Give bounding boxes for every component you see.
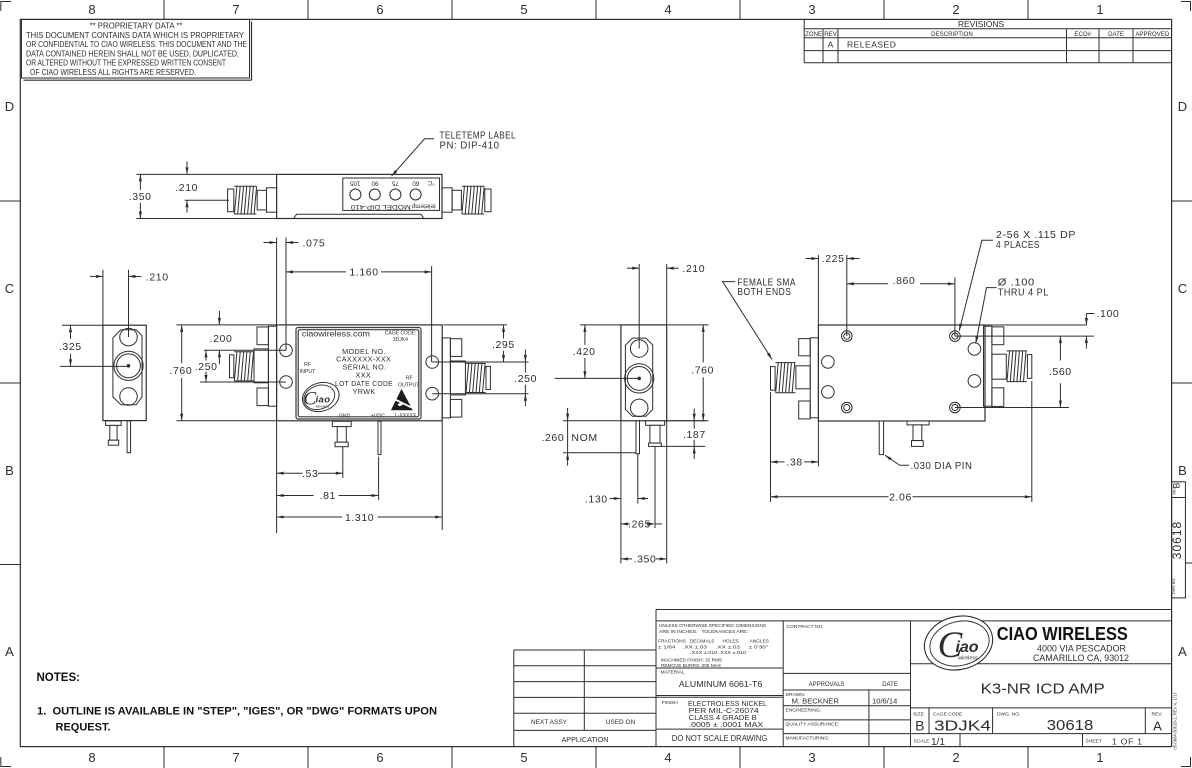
- dimension .350 (top view height): [129, 174, 277, 218]
- svg-text:1. OUTLINE IS AVAILABLE IN "S: 1. OUTLINE IS AVAILABLE IN "STEP", "IGES…: [37, 706, 437, 718]
- bottom recess groove of top view body: [294, 214, 424, 218]
- zone tick marks right edge: [1172, 201, 1192, 563]
- label ciao logo (small): [299, 378, 343, 416]
- svg-text:NEXT ASSY: NEXT ASSY: [531, 719, 568, 726]
- MIDDLE END VIEW: chamfered connector boss outline: [625, 338, 652, 416]
- dimension 2.06 (overall length): [771, 381, 1032, 504]
- BOTTOM VIEW: right SMA connector: [984, 326, 1032, 406]
- svg-text:YRWK: YRWK: [353, 387, 376, 396]
- MIDDLE END VIEW: +VDC wire lead: [636, 421, 640, 454]
- svg-text:OUTPUT: OUTPUT: [398, 383, 420, 389]
- svg-text:DATA CONTAINED HEREIN SHALL NO: DATA CONTAINED HEREIN SHALL NOT BE USED,…: [26, 49, 239, 58]
- svg-text:ALUMINUM 6061-T6: ALUMINUM 6061-T6: [679, 680, 763, 689]
- svg-text:7: 7: [232, 750, 239, 765]
- svg-text:DWG. NO.: DWG. NO.: [997, 711, 1020, 717]
- svg-text:UNLESS OTHERWISE SPECIFIED: DI: UNLESS OTHERWISE SPECIFIED: DIMENSIONS: [659, 623, 767, 629]
- svg-text:B: B: [1178, 463, 1187, 478]
- svg-text:A: A: [1153, 719, 1162, 734]
- svg-text:OR CONFIDENTIAL TO CIAO WIRELE: OR CONFIDENTIAL TO CIAO WIRELESS. THIS D…: [26, 40, 247, 49]
- svg-text:CIAO WIRELESS: CIAO WIRELESS: [997, 623, 1128, 644]
- FRONT VIEW: right SMA connector (RF output): [442, 338, 490, 418]
- svg-text:FINISH: FINISH: [662, 700, 678, 706]
- svg-text:RF: RF: [406, 375, 413, 381]
- MIDDLE END VIEW: lower flange hole: [630, 399, 648, 417]
- svg-text:.XXX ±.010 .XXX ±.010: .XXX ±.010 .XXX ±.010: [690, 650, 746, 656]
- svg-text:75: 75: [392, 180, 399, 187]
- tolerance box: [656, 621, 783, 747]
- svg-text:3DJK4: 3DJK4: [934, 719, 991, 735]
- svg-text:.200: .200: [210, 333, 233, 345]
- svg-text:.860: .860: [893, 275, 916, 287]
- FEMALE SMA BOTH ENDS callout: [723, 276, 796, 359]
- svg-text:CAGE CODE: CAGE CODE: [933, 711, 963, 717]
- TOP VIEW: amplifier housing body (top): [277, 174, 442, 218]
- BOTTOM VIEW: left SMA connector: [771, 338, 819, 419]
- svg-text:1.160: 1.160: [349, 267, 378, 279]
- FRONT VIEW: left SMA connector (RF input): [230, 326, 277, 406]
- svg-text:SHEET: SHEET: [1086, 739, 1102, 745]
- svg-text:4: 4: [664, 750, 671, 765]
- dimension .265 (GND pin offset): [621, 446, 662, 530]
- svg-text:BOTH ENDS: BOTH ENDS: [737, 286, 791, 298]
- svg-text:REV: REV: [824, 31, 837, 38]
- label ESD warning triangle: [391, 389, 414, 410]
- svg-text:6: 6: [376, 750, 383, 765]
- MIDDLE END VIEW: GND feedthrough pin: [646, 421, 665, 447]
- MIDDLE END VIEW: housing body (output end): [621, 325, 667, 421]
- svg-text:MATERIAL: MATERIAL: [661, 670, 685, 676]
- zone tick marks bottom edge: [164, 747, 1028, 768]
- TOP VIEW: right SMA connector: [442, 186, 491, 214]
- svg-text:2: 2: [952, 2, 959, 17]
- callout 2-56 X .115 DP 4 PLACES: [959, 229, 1076, 331]
- dimension .860 (tapped hole spacing): [847, 275, 955, 336]
- svg-text:.250: .250: [195, 361, 218, 373]
- svg-text:QUALITY ASSURANCE:: QUALITY ASSURANCE:: [786, 722, 840, 728]
- zone numbers bottom: [88, 750, 1103, 765]
- svg-text:.0005 ± .0001 MAX: .0005 ± .0001 MAX: [689, 720, 764, 729]
- svg-text:.420: .420: [573, 346, 596, 358]
- teletemp label upside-down temperature figures: [349, 179, 435, 210]
- svg-text:XXX: XXX: [356, 370, 372, 379]
- svg-text:8: 8: [88, 750, 95, 765]
- svg-text:CAGE CODE:: CAGE CODE:: [385, 330, 416, 336]
- svg-text:ciaowireless.com: ciaowireless.com: [302, 328, 370, 338]
- svg-text:wireless: wireless: [957, 656, 978, 662]
- svg-text:OF CIAO WIRELESS ALL RIGHTS A: OF CIAO WIRELESS ALL RIGHTS ARE RESERVED…: [30, 68, 196, 77]
- svg-text:INPUT: INPUT: [300, 369, 316, 375]
- svg-text:.560: .560: [1049, 366, 1072, 378]
- svg-text:C: C: [1178, 281, 1187, 296]
- zone letters right: [1178, 99, 1187, 659]
- svg-text:REMOVE BURRS .005 MAX: REMOVE BURRS .005 MAX: [661, 663, 722, 669]
- svg-text:DWG NO.: DWG NO.: [1172, 578, 1176, 594]
- dimension .250 (left hole spacing): [195, 350, 286, 382]
- LEFT END VIEW: SMA female connector face: [114, 351, 143, 380]
- svg-text:** PROPRIETARY DATA **: ** PROPRIETARY DATA **: [90, 22, 183, 31]
- dimension 1.160 (mounting hole spacing): [286, 266, 432, 362]
- svg-text:+VDC: +VDC: [371, 413, 385, 419]
- FRONT VIEW: identification label plate: [296, 328, 421, 420]
- svg-text:SCALE: SCALE: [914, 739, 931, 745]
- TOP VIEW: teletemp label DIP-410 on housing: [343, 178, 440, 210]
- dimension .420 (top edge to connector center): [555, 325, 640, 379]
- svg-text:THRU 4 PL: THRU 4 PL: [998, 287, 1049, 299]
- svg-text:REV.: REV.: [1152, 711, 1163, 717]
- LEFT END VIEW: upper flange hole: [120, 328, 138, 346]
- teletemp label callout leader: [392, 139, 435, 176]
- svg-text:1.310: 1.310: [345, 512, 374, 524]
- dimension 1.310 (front view overall length): [277, 421, 443, 530]
- FRONT VIEW: +VDC wire lead below housing: [378, 421, 381, 454]
- svg-text:.53: .53: [302, 468, 318, 480]
- svg-text:ECO#: ECO#: [1074, 31, 1091, 38]
- svg-text:MODEL DIP-410: MODEL DIP-410: [350, 203, 411, 210]
- svg-text:APPROVED: APPROVED: [1135, 31, 1169, 38]
- svg-text:REQUEST.: REQUEST.: [56, 722, 111, 734]
- svg-text:.100: .100: [1097, 308, 1120, 320]
- svg-text:1: 1: [1096, 750, 1103, 765]
- svg-text:FRACTIONS DECIMALS HOLE: FRACTIONS DECIMALS HOLES ANGLES: [658, 639, 770, 645]
- zone letters left: [5, 99, 14, 659]
- svg-text:M. BECKNER: M. BECKNER: [792, 696, 840, 705]
- svg-text:USED ON: USED ON: [606, 719, 636, 726]
- svg-text:APPROVALS: APPROVALS: [809, 682, 845, 688]
- zone numbers top: [88, 2, 1103, 17]
- LEFT END VIEW: chamfered connector boss outline: [113, 330, 142, 405]
- MIDDLE END VIEW: SMA female connector face: [625, 364, 654, 393]
- svg-text:.350: .350: [634, 554, 657, 566]
- zone tick marks left edge: [0, 201, 20, 565]
- BOTTOM VIEW: GND feedthrough pin below housing: [907, 421, 929, 446]
- svg-text:B: B: [5, 463, 14, 478]
- dimension .075 (edge to mounting hole): [264, 237, 326, 350]
- svg-text:MANUFACTURING:: MANUFACTURING:: [786, 735, 830, 741]
- next assy / used on application table: [514, 650, 656, 747]
- LEFT END VIEW: housing body (input end): [103, 325, 146, 420]
- dimension .81 (+VDC wire location): [277, 457, 379, 503]
- svg-text:DO NOT SCALE DRAWING: DO NOT SCALE DRAWING: [672, 734, 768, 743]
- svg-text:.265: .265: [628, 519, 651, 531]
- svg-text:4 PLACES: 4 PLACES: [996, 239, 1040, 251]
- svg-text:3: 3: [808, 750, 815, 765]
- approvals column: [783, 621, 910, 747]
- dimension .210 (center to edge, middle end view): [627, 263, 705, 349]
- dimension .350 (middle end view width): [621, 421, 667, 566]
- svg-text:30618: 30618: [1170, 521, 1184, 559]
- LEFT END VIEW: +VDC wire lead: [127, 421, 131, 453]
- svg-text:.210: .210: [682, 263, 705, 275]
- label text model/serial block: [335, 347, 393, 396]
- svg-text:1 OF 1: 1 OF 1: [1112, 737, 1143, 747]
- LEFT END VIEW: GND feedthrough pin: [106, 421, 122, 445]
- scale / sheet row: [959, 734, 961, 747]
- svg-text:.250: .250: [514, 373, 537, 385]
- svg-text:DESCRIPTION: DESCRIPTION: [931, 31, 973, 38]
- svg-text:.350: .350: [129, 191, 152, 203]
- svg-text:.030 DIA PIN: .030 DIA PIN: [911, 460, 973, 472]
- svg-text:.325: .325: [59, 341, 82, 353]
- dimension .38 (connector tip to body edge): [771, 392, 819, 502]
- svg-text:ENGINEERING:: ENGINEERING:: [786, 708, 822, 714]
- svg-text:NOTES:: NOTES:: [37, 672, 80, 684]
- dimension .210 (top edge to connector center): [175, 162, 229, 213]
- LEFT END VIEW: lower flange hole: [120, 388, 138, 406]
- svg-text:A: A: [828, 40, 834, 50]
- svg-text:°C: °C: [427, 179, 434, 186]
- dimension .325 (top edge down to connector center): [59, 325, 129, 366]
- dimension .210 (left end view, edge to connector center): [90, 270, 169, 337]
- svg-text:MACHINED FINISH: 32 RMS: MACHINED FINISH: 32 RMS: [661, 658, 723, 664]
- svg-text:.210: .210: [146, 271, 169, 283]
- TOP VIEW: left SMA connector: [228, 186, 277, 214]
- svg-text:CAMARILLO CA, 93012: CAMARILLO CA, 93012: [1033, 653, 1129, 663]
- svg-text:D: D: [5, 99, 14, 114]
- svg-text:4000 VIA PESCADOR: 4000 VIA PESCADOR: [1037, 644, 1126, 654]
- dimension .130 (wire offset): [585, 421, 648, 564]
- right edge dwg number box: [1170, 498, 1186, 598]
- svg-text:05-0964-30618-1, REV A, 1/17: 05-0964-30618-1, REV A, 1/17: [1173, 692, 1178, 750]
- svg-text:8: 8: [88, 2, 95, 17]
- svg-text:D: D: [1178, 99, 1187, 114]
- svg-text:.075: .075: [303, 237, 326, 249]
- svg-text:.187: .187: [683, 429, 706, 441]
- svg-text:REVISIONS: REVISIONS: [958, 19, 1005, 29]
- MIDDLE END VIEW: upper flange hole: [630, 340, 648, 358]
- svg-text:2: 2: [952, 750, 959, 765]
- svg-text:.81: .81: [320, 490, 336, 502]
- svg-text:teletemp: teletemp: [411, 202, 435, 209]
- teletemp indicator circles: [350, 189, 421, 200]
- svg-text:C: C: [5, 281, 14, 296]
- svg-text:1: 1: [1096, 2, 1103, 17]
- title block outer lines: [656, 610, 1172, 747]
- svg-text:A: A: [5, 644, 14, 659]
- svg-text:ARE IN INCHES. TOLERANCES AR: ARE IN INCHES. TOLERANCES ARE:: [659, 629, 748, 635]
- svg-text:NOM: NOM: [571, 432, 597, 444]
- dimension .295 (top edge to upper-right hole): [432, 325, 528, 362]
- BOTTOM VIEW: four 2-56 tapped holes: [842, 331, 961, 413]
- callout dia .100 THRU 4 PL: [976, 276, 1049, 343]
- svg-text:.130: .130: [585, 493, 608, 505]
- BOTTOM VIEW: four .100 dia thru holes: [822, 343, 981, 399]
- svg-text:.210: .210: [175, 182, 198, 194]
- dimension .100 (edge to tapped hole row): [955, 308, 1119, 348]
- svg-text:.225: .225: [822, 253, 845, 265]
- svg-text:A: A: [1178, 644, 1187, 659]
- svg-text:OR ALTERED WITHOUT THE EXPRESS: OR ALTERED WITHOUT THE EXPRESSED WRITTEN…: [26, 59, 226, 68]
- svg-text:APPLICATION: APPLICATION: [562, 735, 609, 744]
- svg-text:3DJK4: 3DJK4: [393, 337, 408, 343]
- BOTTOM VIEW: amplifier housing body: [818, 325, 985, 421]
- svg-text:5: 5: [520, 750, 527, 765]
- svg-text:.760: .760: [691, 365, 714, 377]
- callout .030 DIA PIN: [885, 455, 973, 472]
- svg-text:RELEASED: RELEASED: [847, 40, 896, 50]
- revisions table: [804, 19, 1171, 63]
- svg-text:60: 60: [412, 180, 419, 187]
- dimension .200 (top edge to upper-left hole): [177, 311, 287, 365]
- dimension .560 (tapped hole row spacing): [955, 336, 1072, 407]
- dimension .250 (right hole spacing): [432, 350, 537, 407]
- svg-text:90: 90: [371, 180, 378, 187]
- svg-text:RF: RF: [304, 362, 311, 368]
- FRONT VIEW: four flange mounting holes: [280, 344, 439, 400]
- svg-text:30618: 30618: [1047, 718, 1094, 734]
- svg-text:.38: .38: [786, 457, 802, 469]
- dimension .187 (GND pin protrusion): [662, 409, 706, 459]
- FRONT VIEW: amplifier housing body: [277, 325, 443, 421]
- svg-text:.760: .760: [169, 365, 192, 377]
- svg-text:± 1/64 .XX ±.03 .XX ±.0: ± 1/64 .XX ±.03 .XX ±.03 ± 0'30": [658, 645, 768, 651]
- svg-text:2.06: 2.06: [889, 492, 912, 504]
- dimension .53 (GND pin location): [277, 421, 343, 533]
- svg-text:wireless: wireless: [316, 404, 330, 408]
- svg-text:ZONE: ZONE: [805, 31, 822, 38]
- svg-text:SIZE: SIZE: [913, 711, 925, 717]
- svg-text:DATE: DATE: [1108, 31, 1124, 38]
- dimension .260 NOM (wire protrusion): [541, 408, 636, 466]
- svg-text:105: 105: [349, 180, 360, 187]
- svg-text:K3-NR ICD AMP: K3-NR ICD AMP: [981, 681, 1105, 698]
- svg-text:iao: iao: [955, 639, 978, 656]
- BOTTOM VIEW: .030 dia pin below housing: [879, 421, 883, 455]
- svg-text:.295: .295: [492, 339, 515, 351]
- svg-text:4: 4: [664, 2, 671, 17]
- size / cage code / dwg no / rev row: [928, 708, 930, 734]
- right edge rev marker box: [1172, 482, 1186, 498]
- company / drawing-number section: [911, 609, 1172, 748]
- zone tick marks top edge: [164, 0, 1028, 19]
- proprietary data notice box: [22, 19, 252, 80]
- svg-text:DATE: DATE: [882, 682, 898, 688]
- svg-text:CONTRACT NO.: CONTRACT NO.: [787, 624, 824, 630]
- svg-text:.260: .260: [541, 432, 564, 444]
- ciao wireless logo (large): [919, 609, 999, 677]
- dimension .225 (edge to tapped hole): [806, 253, 860, 336]
- svg-text:L-XXXXX: L-XXXXX: [395, 413, 417, 419]
- FRONT VIEW: GND pin below housing: [332, 421, 351, 446]
- svg-text:THIS DOCUMENT CONTAINS DATA WH: THIS DOCUMENT CONTAINS DATA WHICH IS PRO…: [26, 31, 245, 40]
- svg-text:GND: GND: [339, 413, 351, 419]
- svg-text:10/6/14: 10/6/14: [872, 696, 897, 705]
- svg-text:B: B: [1172, 482, 1182, 488]
- svg-text:6: 6: [376, 2, 383, 17]
- svg-text:5: 5: [520, 2, 527, 17]
- svg-text:1/1: 1/1: [931, 737, 945, 748]
- dimension .760 (middle end view height): [667, 325, 714, 421]
- svg-text:3: 3: [808, 2, 815, 17]
- svg-text:PN: DIP-410: PN: DIP-410: [440, 139, 500, 151]
- svg-text:7: 7: [232, 2, 239, 17]
- dimension .760 (front view height): [169, 325, 276, 421]
- svg-text:B: B: [915, 718, 924, 734]
